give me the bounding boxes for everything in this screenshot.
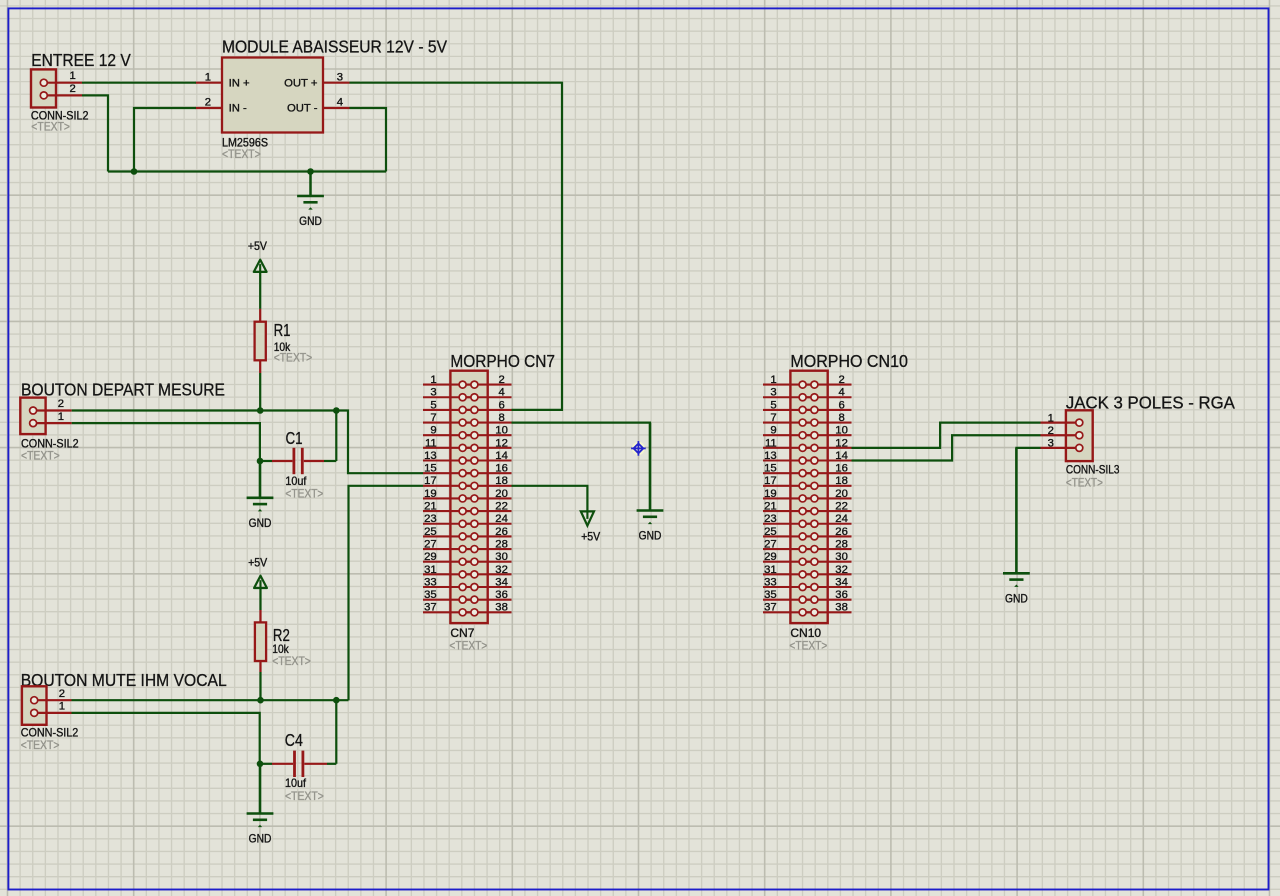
svg-text:5: 5 bbox=[430, 399, 436, 411]
svg-text:+5V: +5V bbox=[248, 239, 268, 253]
svg-text:IN -: IN - bbox=[229, 103, 247, 115]
svg-text:18: 18 bbox=[835, 475, 848, 487]
svg-text:<TEXT>: <TEXT> bbox=[789, 639, 827, 653]
svg-text:12: 12 bbox=[495, 437, 508, 449]
capacitor C4 bbox=[260, 751, 336, 777]
label <TEXT> of MUTE connector bbox=[21, 738, 60, 752]
svg-text:29: 29 bbox=[764, 551, 777, 563]
svg-text:GND: GND bbox=[249, 832, 272, 846]
svg-text:13: 13 bbox=[424, 450, 437, 462]
connector CN10 body bbox=[790, 371, 827, 623]
svg-text:19: 19 bbox=[764, 488, 777, 500]
power +5V symbol above R2 bbox=[248, 555, 268, 588]
label LM2596S bbox=[222, 136, 268, 150]
svg-text:20: 20 bbox=[835, 488, 848, 500]
label <TEXT> of CN7 bbox=[449, 639, 487, 653]
svg-text:30: 30 bbox=[495, 551, 508, 563]
svg-text:37: 37 bbox=[764, 602, 777, 614]
svg-text:32: 32 bbox=[495, 564, 508, 576]
svg-text:17: 17 bbox=[764, 475, 777, 487]
wire ground rail under module bbox=[108, 170, 386, 172]
svg-text:27: 27 bbox=[764, 538, 777, 550]
svg-text:31: 31 bbox=[424, 564, 437, 576]
svg-text:+5V: +5V bbox=[248, 555, 268, 569]
svg-text:<TEXT>: <TEXT> bbox=[272, 654, 311, 668]
svg-text:36: 36 bbox=[835, 589, 848, 601]
svg-text:C1: C1 bbox=[286, 428, 303, 448]
svg-text:18: 18 bbox=[495, 475, 508, 487]
pin 1 of JACK connector bbox=[1041, 412, 1083, 426]
svg-text:2: 2 bbox=[59, 688, 65, 700]
CN7 right pins (even 2..38) with pin numbers bbox=[463, 374, 511, 614]
junction at ground rail x=134 bbox=[131, 168, 138, 175]
wire net DEPART from pin 2 to CN7 pin 15 bbox=[72, 411, 423, 474]
power +5V symbol above R1 bbox=[248, 239, 268, 272]
label CONN-SIL2 of DEPART connector bbox=[21, 437, 79, 451]
wire net MUTE from CN7 pin 17 down to BOUTON MUTE net bbox=[349, 486, 424, 700]
label CONN-SIL2 of MUTE connector bbox=[21, 726, 79, 740]
svg-text:<TEXT>: <TEXT> bbox=[1066, 476, 1103, 490]
junction DEPART net at R1 bottom bbox=[257, 407, 264, 414]
label <TEXT> of R1 bbox=[274, 351, 313, 365]
pin 2 of JACK connector bbox=[1041, 425, 1083, 439]
label 10k of R2 bbox=[272, 642, 289, 656]
svg-text:24: 24 bbox=[835, 513, 848, 525]
resistor R1 bbox=[255, 309, 266, 373]
label <TEXT> of ENTREE connector bbox=[31, 120, 70, 134]
svg-text:28: 28 bbox=[495, 538, 508, 550]
svg-text:OUT -: OUT - bbox=[287, 103, 318, 115]
ground GND under C4 bbox=[247, 764, 274, 846]
svg-text:OUT +: OUT + bbox=[284, 77, 318, 89]
svg-text:38: 38 bbox=[495, 602, 508, 614]
svg-text:3: 3 bbox=[1048, 438, 1054, 450]
svg-text:<TEXT>: <TEXT> bbox=[449, 639, 487, 653]
label R1 bbox=[274, 320, 291, 340]
svg-text:4: 4 bbox=[498, 387, 504, 399]
module pin 1 IN+ bbox=[196, 71, 223, 83]
svg-text:MORPHO CN7: MORPHO CN7 bbox=[450, 351, 555, 371]
junction MUTE net at R2 bottom bbox=[257, 697, 264, 704]
svg-text:MODULE ABAISSEUR 12V - 5V: MODULE ABAISSEUR 12V - 5V bbox=[222, 37, 447, 57]
label <TEXT> of JACK connector bbox=[1066, 476, 1103, 490]
CN10 right pins (even 2..38) with pin numbers bbox=[803, 374, 851, 614]
label CN7 reference bbox=[450, 626, 474, 640]
connector CN7 title label bbox=[450, 351, 555, 371]
connector BOUTON DEPART MESURE body bbox=[20, 398, 45, 435]
svg-text:20: 20 bbox=[495, 488, 508, 500]
svg-text:6: 6 bbox=[838, 399, 844, 411]
svg-text:34: 34 bbox=[495, 576, 508, 588]
label <TEXT> of C4 bbox=[285, 789, 324, 803]
module U1 LM2596S body bbox=[222, 58, 323, 133]
svg-text:26: 26 bbox=[835, 526, 848, 538]
wire net VIN+ from ENTREE pin 1 to module IN+ bbox=[82, 82, 196, 84]
svg-text:17: 17 bbox=[424, 475, 437, 487]
ground GND under JACK bbox=[1003, 448, 1030, 606]
svg-text:3: 3 bbox=[430, 387, 436, 399]
connector CN10 title label bbox=[790, 351, 908, 371]
svg-text:2: 2 bbox=[498, 374, 504, 386]
label CONN-SIL2 of ENTREE connector bbox=[31, 108, 89, 122]
svg-text:11: 11 bbox=[765, 437, 777, 449]
svg-text:38: 38 bbox=[835, 602, 848, 614]
svg-text:MORPHO CN10: MORPHO CN10 bbox=[790, 351, 908, 371]
svg-text:28: 28 bbox=[835, 538, 848, 550]
svg-text:35: 35 bbox=[764, 589, 777, 601]
svg-text:2: 2 bbox=[70, 83, 76, 95]
connector BOUTON DEPART MESURE title label bbox=[21, 379, 225, 399]
svg-text:8: 8 bbox=[498, 412, 504, 424]
svg-text:16: 16 bbox=[835, 463, 848, 475]
junction at ground rail x=310.5 bbox=[307, 168, 314, 175]
junction MUTE net at C4 right branch bbox=[333, 697, 340, 704]
ground GND under C1 bbox=[247, 461, 274, 530]
module pin 4 OUT- bbox=[323, 97, 350, 109]
svg-text:6: 6 bbox=[498, 399, 504, 411]
svg-text:31: 31 bbox=[764, 564, 777, 576]
svg-text:19: 19 bbox=[424, 488, 437, 500]
svg-text:35: 35 bbox=[424, 589, 437, 601]
capacitor C1 bbox=[260, 448, 336, 474]
wire net MUTE from pin 2 to CN7 pin 17 riser bbox=[72, 699, 349, 701]
svg-text:GND: GND bbox=[639, 529, 662, 543]
ground GND right of CN7 bbox=[637, 423, 664, 543]
svg-text:R1: R1 bbox=[274, 320, 291, 340]
label <TEXT> of CN10 bbox=[789, 639, 827, 653]
wire net VIN- from module IN- down to ground rail bbox=[134, 108, 196, 172]
svg-text:1: 1 bbox=[430, 374, 436, 386]
svg-text:36: 36 bbox=[495, 589, 508, 601]
wire from R1 down to DEPART net bbox=[259, 373, 261, 411]
svg-text:8: 8 bbox=[838, 412, 844, 424]
svg-text:BOUTON MUTE IHM VOCAL: BOUTON MUTE IHM VOCAL bbox=[21, 670, 227, 690]
label 10uf of C1 bbox=[285, 474, 307, 488]
svg-text:GND: GND bbox=[299, 214, 322, 228]
label <TEXT> of module bbox=[222, 147, 261, 161]
svg-text:1: 1 bbox=[59, 701, 65, 713]
wire from C4 left node down to ground bbox=[259, 764, 261, 814]
svg-text:27: 27 bbox=[424, 538, 437, 550]
pin 2 of ENTREE connector bbox=[40, 83, 82, 99]
CN7 pin holes bbox=[459, 381, 478, 616]
svg-text:21: 21 bbox=[424, 501, 437, 513]
label <TEXT> of DEPART connector bbox=[21, 449, 60, 463]
svg-text:25: 25 bbox=[764, 526, 777, 538]
svg-text:<TEXT>: <TEXT> bbox=[21, 738, 60, 752]
svg-text:23: 23 bbox=[764, 513, 777, 525]
wire from C4 right up to MUTE net bbox=[335, 700, 337, 764]
svg-text:4: 4 bbox=[337, 97, 343, 109]
svg-text:22: 22 bbox=[835, 501, 848, 513]
svg-text:1: 1 bbox=[70, 70, 76, 82]
svg-text:CONN-SIL3: CONN-SIL3 bbox=[1066, 463, 1120, 477]
label 10k of R1 bbox=[274, 340, 291, 354]
svg-text:37: 37 bbox=[424, 602, 437, 614]
label <TEXT> of C1 bbox=[285, 487, 323, 501]
pin 1 of DEPART connector bbox=[30, 411, 72, 427]
wire from CN10 pin 14 to JACK pin 2 bbox=[852, 435, 1041, 460]
svg-text:10: 10 bbox=[835, 425, 848, 437]
svg-text:14: 14 bbox=[495, 450, 508, 462]
svg-text:1: 1 bbox=[1048, 412, 1054, 424]
label 10uf of C4 bbox=[285, 776, 307, 790]
connector BOUTON MUTE IHM VOCAL body bbox=[22, 686, 47, 725]
wire from DEPART pin 1 down to C1 left bbox=[72, 423, 260, 461]
svg-text:10: 10 bbox=[495, 425, 508, 437]
svg-text:4: 4 bbox=[838, 387, 844, 399]
wire from C1 left node down to ground bbox=[259, 461, 261, 498]
connector JACK 3 POLES - RGA title label bbox=[1066, 392, 1235, 412]
svg-text:29: 29 bbox=[424, 551, 437, 563]
connector ENTREE 12 V body bbox=[31, 69, 56, 107]
label CONN-SIL3 of JACK connector bbox=[1066, 463, 1120, 477]
junction at C4 left plate node bbox=[257, 761, 264, 768]
wire net +5V from module OUT+ to CN7 pin 6 bbox=[350, 83, 563, 410]
svg-text:1: 1 bbox=[58, 411, 64, 423]
wire from +5V symbol to resistor R2 bbox=[259, 588, 261, 610]
svg-text:<TEXT>: <TEXT> bbox=[31, 120, 70, 134]
svg-text:1: 1 bbox=[205, 71, 211, 83]
connector JACK 3 POLES (CONN-SIL3) body bbox=[1066, 410, 1093, 461]
svg-text:9: 9 bbox=[430, 425, 436, 437]
svg-text:ENTREE 12 V: ENTREE 12 V bbox=[31, 50, 131, 70]
label C1 bbox=[286, 428, 303, 448]
wire from CN10 pin 12 to JACK pin 1 bbox=[852, 423, 1041, 448]
wire net VIN- from ENTREE pin 2 down to ground rail bbox=[82, 95, 108, 171]
svg-text:24: 24 bbox=[495, 513, 508, 525]
label C4 bbox=[285, 730, 303, 750]
svg-text:12: 12 bbox=[835, 437, 848, 449]
module pin 3 OUT+ bbox=[323, 71, 350, 83]
ground GND under module bbox=[297, 172, 324, 229]
svg-text:+5V: +5V bbox=[581, 529, 601, 543]
svg-text:15: 15 bbox=[764, 463, 777, 475]
svg-text:30: 30 bbox=[835, 551, 848, 563]
pin 1 of ENTREE connector bbox=[40, 70, 82, 86]
svg-text:2: 2 bbox=[58, 398, 64, 410]
svg-text:<TEXT>: <TEXT> bbox=[21, 449, 60, 463]
svg-text:16: 16 bbox=[495, 463, 508, 475]
svg-text:<TEXT>: <TEXT> bbox=[285, 487, 323, 501]
svg-text:<TEXT>: <TEXT> bbox=[285, 789, 324, 803]
wire from +5V symbol to resistor R1 bbox=[259, 272, 261, 309]
svg-text:BOUTON DEPART MESURE: BOUTON DEPART MESURE bbox=[21, 379, 225, 399]
svg-text:10uf: 10uf bbox=[285, 776, 307, 790]
svg-text:26: 26 bbox=[495, 526, 508, 538]
CN10 left pins (odd 1..37) with pin numbers bbox=[763, 374, 814, 614]
connector CN7 body bbox=[450, 371, 487, 623]
svg-text:5: 5 bbox=[770, 399, 776, 411]
svg-text:32: 32 bbox=[835, 564, 848, 576]
pin 3 of JACK connector bbox=[1041, 438, 1083, 452]
junction DEPART net at C1 right branch bbox=[333, 407, 340, 414]
svg-text:13: 13 bbox=[764, 450, 777, 462]
svg-text:25: 25 bbox=[424, 526, 437, 538]
wire from CN7 pin 18 to +5V arrow bbox=[512, 486, 588, 512]
power +5V symbol below CN7 pin 18 bbox=[581, 511, 601, 543]
pin 1 of MUTE connector bbox=[31, 701, 72, 717]
svg-text:C4: C4 bbox=[285, 730, 303, 750]
svg-text:2: 2 bbox=[838, 374, 844, 386]
pin 2 of MUTE connector bbox=[31, 688, 72, 704]
label R2 bbox=[273, 625, 290, 645]
CN7 left pins (odd 1..37) with pin numbers bbox=[423, 374, 474, 614]
wire net OUT- from module pin 4 to ground rail bbox=[350, 108, 387, 172]
resistor R2 bbox=[255, 610, 266, 672]
module U1 LM2596S title label bbox=[222, 37, 447, 57]
connector ENTREE 12 V (CONN-SIL2), title label bbox=[31, 50, 131, 70]
pin 2 of DEPART connector bbox=[30, 398, 72, 414]
wire from C1 right up to DEPART net bbox=[335, 411, 337, 462]
svg-text:11: 11 bbox=[425, 437, 437, 449]
svg-text:7: 7 bbox=[770, 412, 776, 424]
svg-text:2: 2 bbox=[1048, 425, 1054, 437]
svg-text:IN +: IN + bbox=[229, 77, 250, 89]
svg-text:14: 14 bbox=[835, 450, 848, 462]
editor cursor crosshair bbox=[631, 441, 646, 456]
wire from MUTE pin 1 down to C4 left bbox=[72, 713, 260, 764]
svg-text:<TEXT>: <TEXT> bbox=[222, 147, 261, 161]
svg-text:33: 33 bbox=[764, 576, 777, 588]
svg-text:33: 33 bbox=[424, 576, 437, 588]
label <TEXT> of R2 bbox=[272, 654, 311, 668]
svg-text:23: 23 bbox=[424, 513, 437, 525]
wire from R2 down to MUTE net bbox=[259, 672, 261, 700]
svg-text:GND: GND bbox=[249, 516, 272, 530]
svg-text:22: 22 bbox=[495, 501, 508, 513]
svg-text:GND: GND bbox=[1005, 591, 1028, 605]
wire from CN7 pin 8 to ground bbox=[512, 423, 651, 511]
connector BOUTON MUTE IHM VOCAL title label bbox=[21, 670, 227, 690]
junction at C1 left plate node bbox=[257, 458, 264, 465]
svg-text:34: 34 bbox=[835, 576, 848, 588]
wire from JACK pin 3 down to ground bbox=[1016, 448, 1040, 573]
CN10 pin holes bbox=[799, 381, 818, 616]
svg-text:1: 1 bbox=[770, 374, 776, 386]
label CN10 reference bbox=[790, 626, 821, 640]
svg-text:2: 2 bbox=[205, 97, 211, 109]
svg-text:21: 21 bbox=[764, 501, 777, 513]
svg-text:9: 9 bbox=[770, 425, 776, 437]
module pin 2 IN- bbox=[196, 97, 223, 109]
svg-text:15: 15 bbox=[424, 463, 437, 475]
svg-text:7: 7 bbox=[430, 412, 436, 424]
svg-text:3: 3 bbox=[770, 387, 776, 399]
svg-text:3: 3 bbox=[337, 71, 343, 83]
svg-text:<TEXT>: <TEXT> bbox=[274, 351, 313, 365]
